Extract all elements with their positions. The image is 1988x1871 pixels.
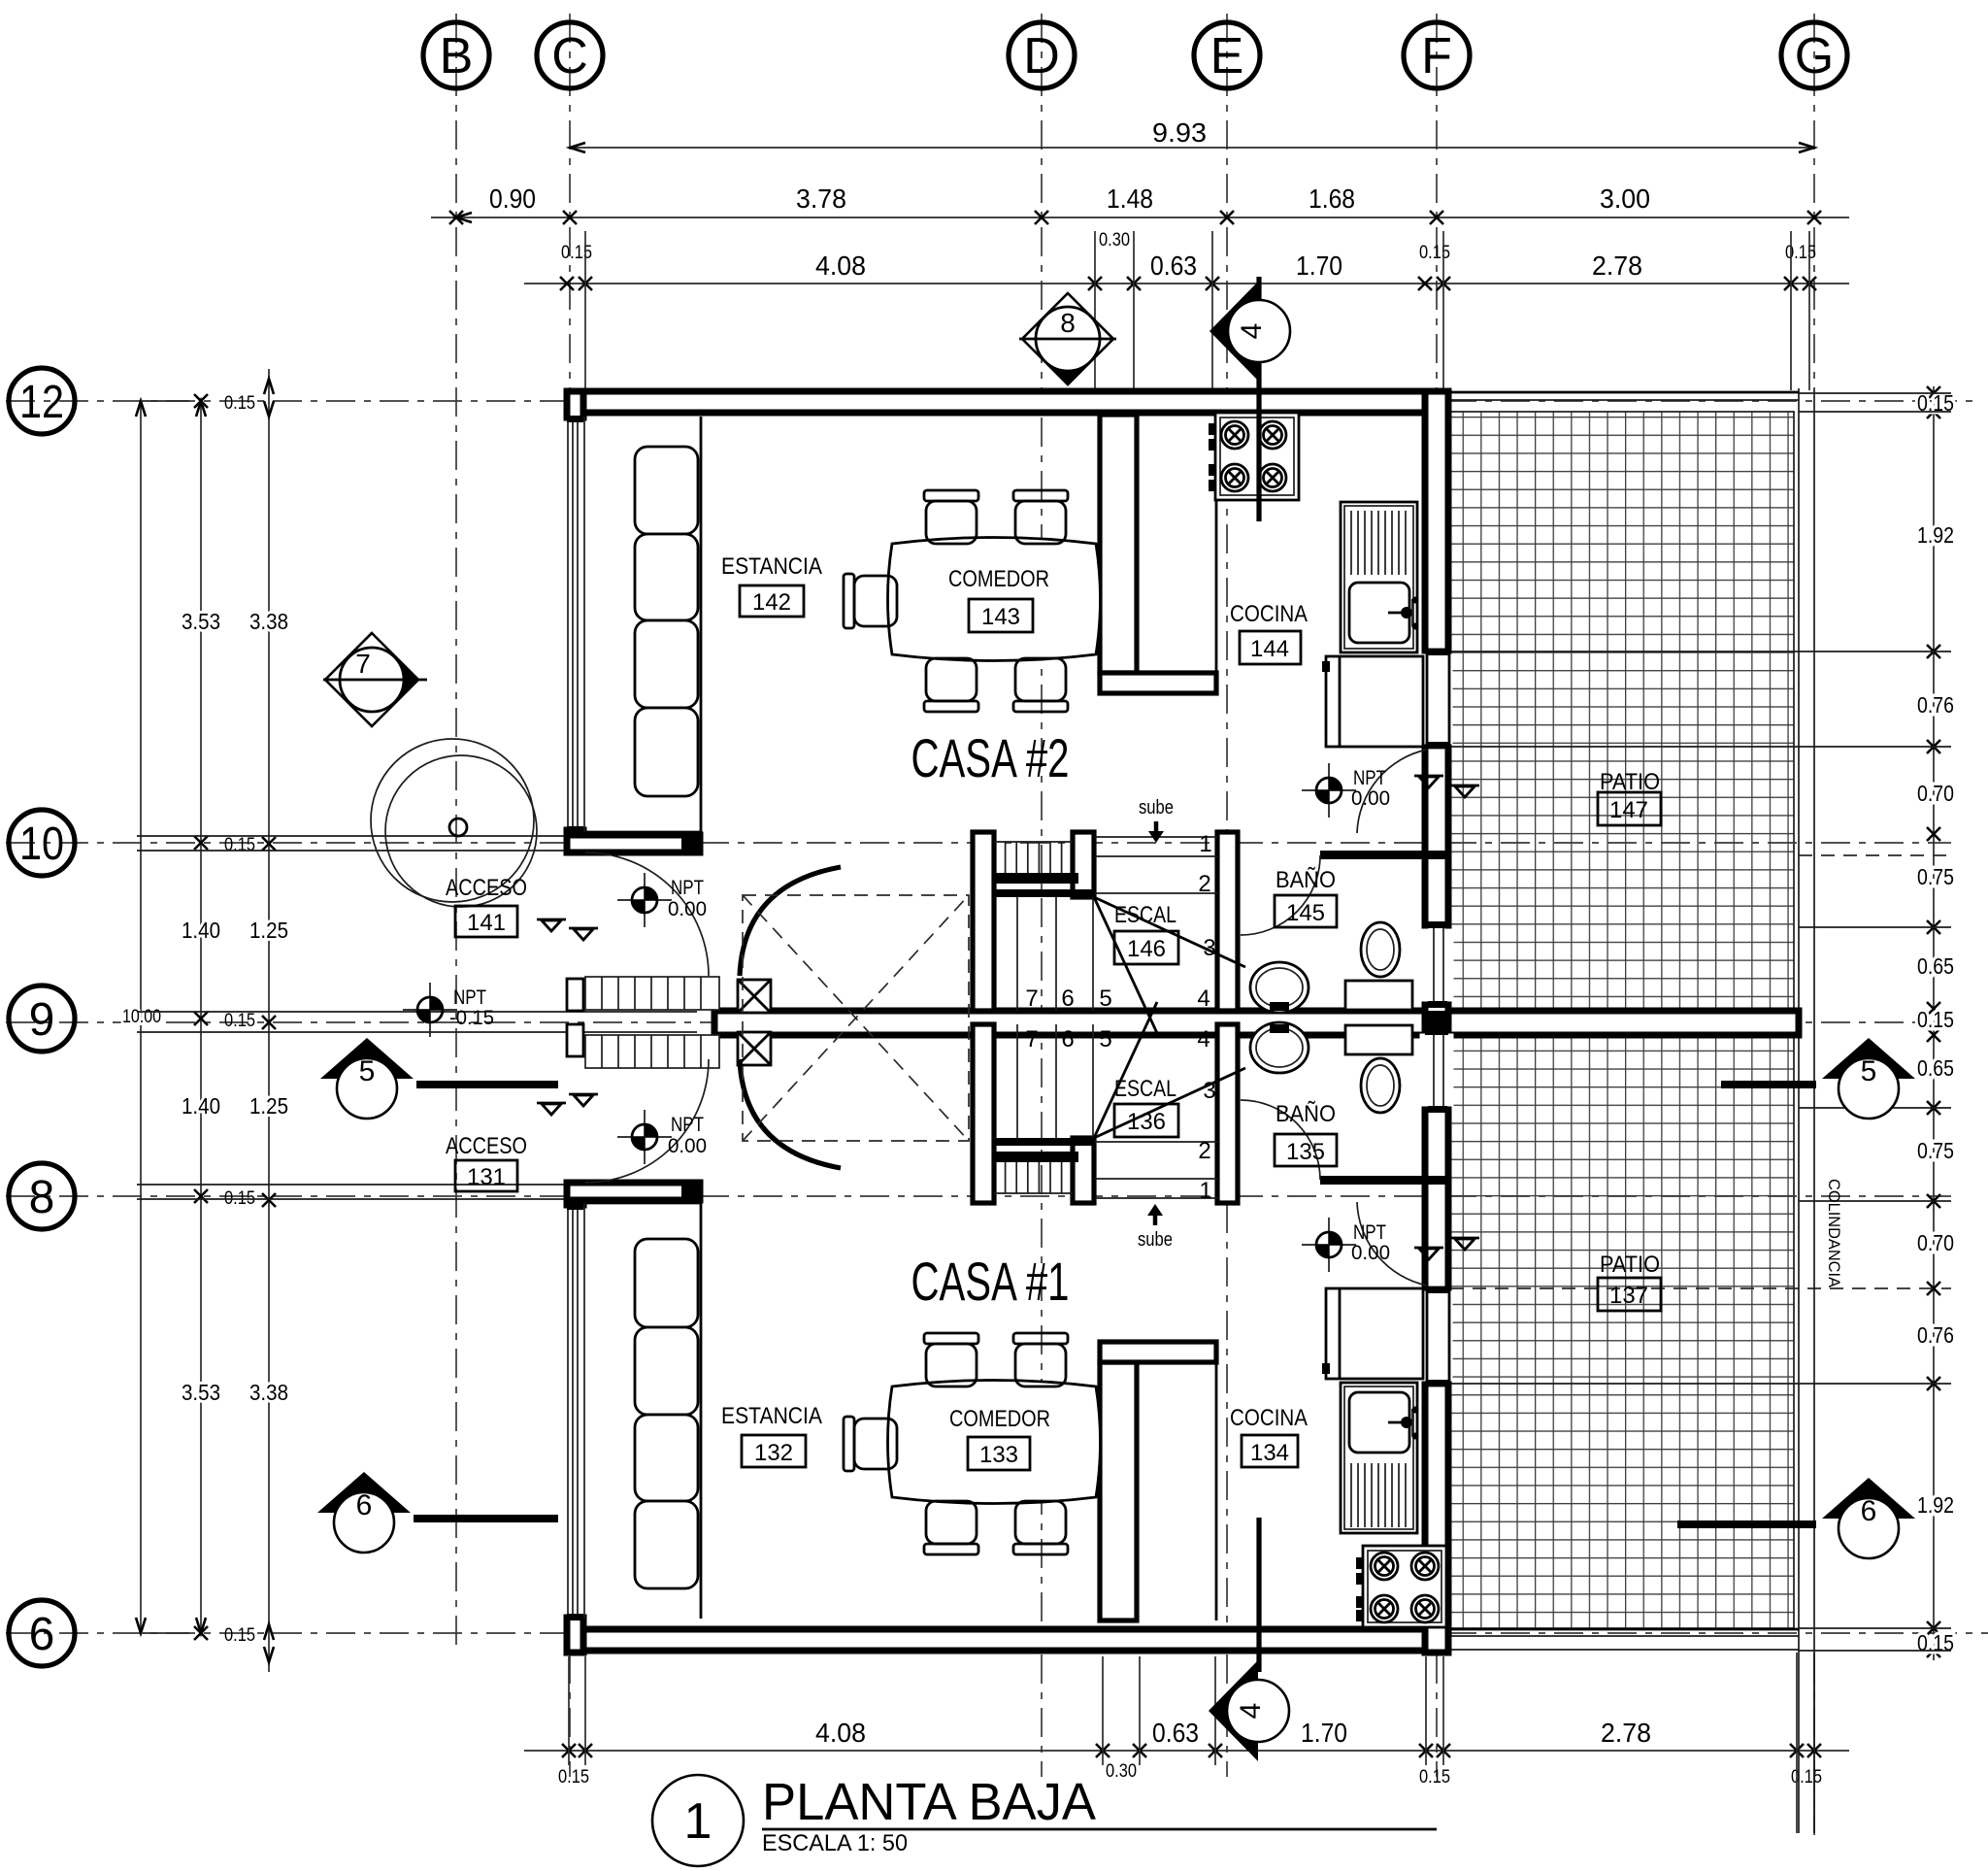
svg-text:4.08: 4.08 <box>815 251 866 281</box>
svg-text:1: 1 <box>684 1793 712 1850</box>
svg-text:ESTANCIA: ESTANCIA <box>721 1403 822 1429</box>
entry door swing casa2 <box>585 852 709 976</box>
label COMEDOR 143 casa2 <box>948 566 1049 632</box>
stair tread numbers casa2 <box>1025 831 1215 1012</box>
section marker 7 (diamond) <box>323 633 427 726</box>
grid axis line F (vertical dashed) <box>1436 14 1438 1777</box>
svg-text:1.25: 1.25 <box>249 918 288 943</box>
stair pocket landing band casa1 <box>994 1138 1094 1162</box>
label ESTANCIA 142 casa2 <box>721 553 822 617</box>
grid axis line 8 (horizontal dashed) <box>6 1195 1951 1197</box>
section marker 6 right (triangle circle) <box>1677 1478 1915 1558</box>
svg-text:0.65: 0.65 <box>1917 953 1954 979</box>
svg-text:4: 4 <box>1197 986 1209 1012</box>
grid bubble 12 (row axis) <box>9 368 75 434</box>
svg-text:D: D <box>1023 28 1060 84</box>
svg-text:1.25: 1.25 <box>249 1093 288 1119</box>
svg-text:C: C <box>551 28 588 84</box>
right dim extension lines across patio <box>1450 393 1951 1651</box>
svg-text:B: B <box>440 28 474 84</box>
svg-text:0.15: 0.15 <box>1785 243 1816 263</box>
level nablas casa2 patio door <box>1414 776 1479 797</box>
svg-text:1.92: 1.92 <box>1917 522 1954 548</box>
colindancia boundary double line at G <box>1799 388 1814 1833</box>
grid axis line G (vertical dashed) <box>1813 14 1815 1835</box>
svg-text:0.15: 0.15 <box>224 835 255 855</box>
dining table casa1 <box>888 1381 1101 1504</box>
bath door swing casa1 <box>1241 1100 1320 1180</box>
window in left wall casa2 (estancia) <box>563 416 586 833</box>
bottom dim chain 4.08/0.30/0.63/1.70/2.78 + 0.15s <box>524 1718 1849 1787</box>
label ACCESO 141 casa2 <box>446 875 527 937</box>
svg-text:ESCAL: ESCAL <box>1114 1076 1176 1102</box>
level nablas casa1 entry <box>537 1094 598 1115</box>
grid axis line 10 (horizontal dashed) <box>6 842 1951 844</box>
kitchen divider wall casa2 <box>1100 415 1137 673</box>
dining chair casa2 top-right <box>1013 490 1068 544</box>
exterior wall top (C-F, row 12) <box>567 391 1448 413</box>
svg-text:5: 5 <box>1099 1026 1111 1052</box>
svg-text:5: 5 <box>1099 986 1111 1012</box>
stove casa2 <box>1209 413 1299 500</box>
entry door swing casa1 <box>585 1059 709 1183</box>
sube arrow casa2 <box>1139 797 1174 843</box>
stair lower flight treads casa1 <box>1017 1024 1217 1198</box>
svg-text:9: 9 <box>29 994 55 1046</box>
svg-text:0.15: 0.15 <box>1419 243 1450 263</box>
stair cut diagonals casa2 <box>1094 897 1245 1033</box>
kitchen counter front line casa1 <box>1215 1362 1218 1620</box>
grid bubble C (column axis) <box>537 22 603 88</box>
svg-text:6: 6 <box>356 1489 373 1521</box>
svg-text:1.40: 1.40 <box>182 918 220 943</box>
grid bubble 10 (row axis) <box>9 810 75 876</box>
dining chair casa2 top-left <box>924 490 978 544</box>
section marker 5 right (triangle circle) <box>1721 1038 1915 1119</box>
svg-text:2.78: 2.78 <box>1601 1718 1651 1748</box>
label COMEDOR 133 casa1 <box>949 1406 1050 1470</box>
left 0.15 wall labels <box>224 393 255 1646</box>
dim chain total 9.93 (C to G) <box>570 117 1814 152</box>
svg-text:5: 5 <box>1861 1055 1877 1087</box>
patio door leaf casa1 <box>1427 1287 1449 1386</box>
party/spine wall row 9 <box>714 1011 1799 1035</box>
svg-text:1.48: 1.48 <box>1107 184 1153 214</box>
dining chair casa1 left end <box>844 1417 897 1471</box>
svg-text:136: 136 <box>1127 1109 1166 1135</box>
svg-text:PATIO: PATIO <box>1600 1252 1660 1278</box>
patio top boundary wall <box>1448 392 1799 400</box>
svg-text:COCINA: COCINA <box>1230 601 1308 627</box>
svg-text:0.63: 0.63 <box>1150 251 1197 281</box>
label CASA #1 <box>911 1251 1070 1312</box>
label CASA #2 <box>911 727 1070 788</box>
stair tread numbers casa1 <box>1025 1026 1215 1204</box>
svg-text:4.08: 4.08 <box>815 1718 866 1748</box>
kitchen sink casa2 <box>1341 502 1419 652</box>
stair pocket landing band casa2 <box>994 873 1094 897</box>
window in left wall casa1 (estancia) <box>563 1203 586 1620</box>
kitchen divider foot band casa2 <box>1100 673 1216 693</box>
label ESCAL 146 casa2 <box>1114 902 1178 964</box>
grid axis line E (vertical dashed) <box>1226 14 1228 1777</box>
top dim extension lines <box>585 231 1809 390</box>
label PATIO 147 casa2 <box>1598 769 1661 825</box>
svg-text:0.76: 0.76 <box>1917 692 1954 718</box>
svg-text:144: 144 <box>1250 636 1289 662</box>
dining chair casa1 bottom-left <box>924 1501 978 1554</box>
stair pocket left wall casa2 <box>973 832 994 1011</box>
bath door swing casa2 <box>1241 855 1320 935</box>
svg-text:1.40: 1.40 <box>182 1093 220 1119</box>
washbasin casa2 <box>1250 962 1309 1013</box>
svg-text:3.38: 3.38 <box>249 609 288 634</box>
exterior wall bottom (row 6) <box>567 1629 1448 1651</box>
bath/stair divider wall at E casa1 <box>1217 1024 1238 1203</box>
window in right bathroom wall casa2 <box>1428 921 1447 1008</box>
wall row10 stub (left of entry door casa2) <box>567 835 700 852</box>
level nablas casa2 entry <box>537 919 598 940</box>
svg-text:ESCAL: ESCAL <box>1114 902 1176 928</box>
grid bubble 9 (row axis) <box>9 986 75 1052</box>
svg-text:1.92: 1.92 <box>1917 1492 1954 1518</box>
tree symbol at entrance <box>371 739 537 907</box>
left wall stub at entry casa1 <box>567 1024 583 1056</box>
NPT 0.00 marker casa1 kitchen <box>1302 1218 1390 1272</box>
grid bubble D (column axis) <box>1009 22 1075 88</box>
svg-text:7: 7 <box>1025 986 1038 1012</box>
svg-text:9.93: 9.93 <box>1152 117 1207 148</box>
svg-text:134: 134 <box>1250 1440 1289 1466</box>
patio paving hatch casa1 (room 137) <box>1450 1035 1794 1628</box>
NPT 0.00 marker casa2 entry <box>617 873 707 927</box>
dining chair casa2 bottom-left <box>924 658 978 712</box>
exterior wall left lower (casa1) <box>567 1183 583 1653</box>
NPT 0.00 marker casa1 entry <box>617 1110 707 1164</box>
svg-text:143: 143 <box>981 604 1020 630</box>
svg-text:0.15: 0.15 <box>224 393 255 414</box>
svg-text:0.00: 0.00 <box>668 1135 707 1157</box>
left overall dim 10.00 (rows 12-6) <box>122 401 189 1633</box>
svg-text:1.68: 1.68 <box>1309 184 1355 214</box>
svg-text:2.78: 2.78 <box>1592 251 1642 281</box>
svg-text:0.15: 0.15 <box>1917 1007 1954 1032</box>
svg-text:0.65: 0.65 <box>1917 1055 1954 1081</box>
front path edge lines (left of building) <box>137 836 697 1199</box>
label PATIO 137 casa1 <box>1598 1252 1661 1311</box>
dining chair casa1 bottom-right <box>1013 1501 1068 1554</box>
dining chair casa1 top-left <box>924 1333 978 1387</box>
svg-text:NPT: NPT <box>453 986 486 1009</box>
grid bubble 8 (row axis) <box>9 1163 75 1229</box>
svg-text:NPT: NPT <box>1353 1221 1386 1244</box>
patio bottom boundary wall <box>1448 1629 1799 1650</box>
grid axis line B (vertical dashed) <box>455 14 457 1645</box>
svg-text:3.78: 3.78 <box>796 184 846 214</box>
svg-text:1: 1 <box>1199 831 1211 857</box>
svg-text:E: E <box>1210 28 1244 84</box>
svg-text:8: 8 <box>29 1172 55 1223</box>
svg-text:131: 131 <box>467 1164 506 1190</box>
svg-text:0.90: 0.90 <box>489 184 536 214</box>
grid bubble G (column axis) <box>1781 22 1847 88</box>
toilet casa2 <box>1345 922 1412 1010</box>
svg-text:sube: sube <box>1138 1229 1173 1251</box>
svg-text:0.30: 0.30 <box>1099 230 1130 251</box>
stair pocket right jamb casa2 <box>1073 832 1094 897</box>
svg-text:BAÑO: BAÑO <box>1276 867 1336 893</box>
stair first flight hatch casa2 <box>994 842 1073 873</box>
grid axis line 6 (horizontal dashed) <box>6 1632 1988 1634</box>
svg-text:132: 132 <box>754 1440 793 1466</box>
svg-text:0.30: 0.30 <box>1106 1761 1137 1782</box>
title PLANTA BAJA <box>762 1773 1437 1856</box>
svg-text:141: 141 <box>467 910 506 936</box>
section marker 4 top (circle flag) <box>1209 277 1290 382</box>
title drawing number circle <box>652 1775 744 1866</box>
left dim chain 3.53/1.40/1.40/3.53 <box>182 394 220 1640</box>
colindancia label (vertical text) <box>1825 1179 1843 1288</box>
sofa casa1 outline <box>583 1203 701 1619</box>
newel post casa2 <box>738 980 771 1013</box>
svg-text:0.75: 0.75 <box>1917 1138 1954 1163</box>
svg-text:ACCESO: ACCESO <box>446 875 527 901</box>
svg-text:NPT: NPT <box>671 877 704 899</box>
svg-text:3.53: 3.53 <box>182 609 220 634</box>
wall row8 stub (left of entry door casa1) <box>567 1183 700 1200</box>
dining table casa2 <box>888 538 1101 661</box>
dining chair casa1 top-right <box>1013 1333 1068 1387</box>
right dim chain 0.15/1.92/0.76/0.70/0.75/0.65/... <box>1917 386 1954 1660</box>
grid bubble F (column axis) <box>1404 22 1470 88</box>
svg-text:2: 2 <box>1198 1138 1210 1164</box>
svg-text:0.15: 0.15 <box>558 1767 589 1787</box>
svg-text:135: 135 <box>1286 1139 1325 1165</box>
sofa casa2 cushions <box>635 447 698 796</box>
svg-text:CASA #2: CASA #2 <box>911 727 1070 788</box>
svg-text:3.53: 3.53 <box>182 1380 220 1405</box>
svg-text:-0.15: -0.15 <box>449 1007 494 1029</box>
section marker 6 left (triangle circle) <box>317 1472 558 1553</box>
svg-text:6: 6 <box>1861 1495 1877 1527</box>
svg-text:4: 4 <box>1236 323 1268 340</box>
NPT 0.00 marker casa2 kitchen <box>1302 763 1390 818</box>
svg-text:3.38: 3.38 <box>249 1380 288 1405</box>
svg-text:0.75: 0.75 <box>1917 864 1954 889</box>
svg-text:1.70: 1.70 <box>1301 1718 1347 1748</box>
svg-text:PLANTA BAJA: PLANTA BAJA <box>762 1773 1096 1831</box>
sube arrow casa1 <box>1138 1204 1173 1251</box>
label COCINA 144 casa2 <box>1230 601 1308 664</box>
svg-text:0.70: 0.70 <box>1917 781 1954 806</box>
curved stair wall casa1 <box>740 1059 841 1168</box>
entry steps casa2 <box>585 977 719 1010</box>
svg-text:137: 137 <box>1609 1283 1648 1309</box>
window in right bathroom wall casa1 <box>1428 1028 1447 1113</box>
svg-text:5: 5 <box>359 1055 376 1087</box>
NPT -0.15 marker outside entry <box>403 983 494 1037</box>
svg-text:10.00: 10.00 <box>122 1007 161 1027</box>
sofa casa2 outline <box>583 417 701 832</box>
grid axis line 9 (horizontal dashed) <box>6 1021 1951 1023</box>
stove casa1 <box>1356 1546 1446 1627</box>
kitchen divider wall casa1 <box>1100 1362 1137 1620</box>
refrigerator casa1 <box>1322 1288 1423 1379</box>
svg-text:7: 7 <box>1025 1026 1038 1052</box>
kitchen sink casa1 <box>1341 1383 1419 1533</box>
section marker 4 bottom (circle flag) <box>1209 1660 1289 1761</box>
svg-text:0.00: 0.00 <box>668 898 707 920</box>
svg-text:0.15: 0.15 <box>224 1011 255 1031</box>
label BAÑO 145 casa2 <box>1275 867 1337 927</box>
svg-text:6: 6 <box>29 1609 55 1660</box>
svg-text:ACCESO: ACCESO <box>446 1133 527 1159</box>
dim chain interior 0.15/4.08/0.30/0.63/1.70/0.15/2.78/0.15 <box>524 230 1849 290</box>
svg-text:NPT: NPT <box>1353 767 1386 789</box>
patio paving hatch casa2 (room 147) <box>1450 412 1794 1009</box>
exterior wall right (F line) <box>1425 391 1448 1653</box>
svg-text:0.15: 0.15 <box>561 243 592 263</box>
toilet casa1 <box>1345 1025 1412 1113</box>
grid bubble E (column axis) <box>1194 22 1260 88</box>
svg-text:147: 147 <box>1609 797 1648 823</box>
bottom dim extension lines <box>569 1653 1814 1833</box>
svg-text:F: F <box>1421 28 1452 84</box>
stair cut diagonals casa1 <box>1094 1002 1245 1138</box>
svg-text:12: 12 <box>19 377 64 428</box>
label COCINA 134 casa1 <box>1230 1405 1308 1467</box>
section marker 5 left (triangle circle) <box>320 1038 558 1119</box>
label ESCAL 136 casa1 <box>1114 1076 1178 1137</box>
stair first flight hatch casa1 <box>994 1162 1073 1193</box>
grid axis line C (vertical dashed) <box>569 14 571 1777</box>
grid bubble 6 (row axis) <box>9 1600 75 1666</box>
svg-text:4: 4 <box>1235 1703 1267 1720</box>
left wall stub at entry casa2 <box>567 979 583 1011</box>
svg-text:133: 133 <box>979 1442 1018 1468</box>
svg-text:0.70: 0.70 <box>1917 1230 1954 1255</box>
patio door swing arc casa2 <box>1357 750 1427 833</box>
svg-text:6: 6 <box>1061 1026 1074 1052</box>
upper floor projection dashed outline <box>743 895 969 1141</box>
svg-text:1.70: 1.70 <box>1296 251 1342 281</box>
grid bubble B (column axis) <box>423 22 489 88</box>
svg-text:BAÑO: BAÑO <box>1276 1101 1336 1127</box>
svg-text:0.15: 0.15 <box>224 1625 255 1646</box>
wall junction F x spine <box>1425 1011 1448 1035</box>
stair lower flight treads casa2 <box>1017 837 1217 1011</box>
patio door leaf casa2 <box>1427 650 1449 748</box>
label BAÑO 135 casa1 <box>1275 1101 1337 1166</box>
kitchen divider head band casa1 <box>1100 1342 1216 1362</box>
svg-text:0.00: 0.00 <box>1351 787 1390 810</box>
bathroom bottom wall casa1 <box>1320 1176 1448 1185</box>
grid axis line 12 (horizontal dashed) <box>6 400 1980 402</box>
bath/stair divider wall at E casa2 <box>1217 832 1238 1011</box>
svg-text:6: 6 <box>1061 986 1074 1012</box>
svg-text:0.76: 0.76 <box>1917 1322 1954 1348</box>
level nablas casa1 patio door <box>1414 1238 1479 1259</box>
svg-text:ESCALA 1: 50: ESCALA 1: 50 <box>762 1830 908 1856</box>
svg-text:COLINDANCIA: COLINDANCIA <box>1825 1179 1843 1288</box>
svg-text:0.00: 0.00 <box>1351 1242 1390 1264</box>
refrigerator casa2 <box>1322 656 1423 747</box>
svg-text:145: 145 <box>1286 900 1325 926</box>
patio door swing arc casa1 <box>1357 1202 1427 1286</box>
svg-text:3.00: 3.00 <box>1600 184 1650 214</box>
svg-text:146: 146 <box>1127 936 1166 962</box>
section-4 cut line through casa2 kitchen <box>1256 363 1261 521</box>
right wall opening knockouts <box>1420 654 1453 1381</box>
exterior wall left upper (casa2) <box>567 391 583 852</box>
curved stair wall casa2 <box>740 867 841 976</box>
svg-text:2: 2 <box>1198 871 1210 897</box>
svg-text:CASA #1: CASA #1 <box>911 1251 1070 1312</box>
stair pocket left wall casa1 <box>973 1024 994 1203</box>
left dim chain 3.38/1.25/1.25/3.38 <box>249 369 288 1672</box>
section marker 8 (diamond) <box>1019 293 1116 384</box>
svg-text:10: 10 <box>19 819 64 870</box>
dining chair casa2 bottom-right <box>1013 658 1068 712</box>
svg-text:0.15: 0.15 <box>1791 1767 1822 1787</box>
svg-text:4: 4 <box>1197 1026 1209 1052</box>
svg-text:8: 8 <box>1060 308 1076 338</box>
svg-text:1: 1 <box>1199 1178 1211 1204</box>
svg-text:COMEDOR: COMEDOR <box>949 1406 1050 1432</box>
svg-text:0.15: 0.15 <box>1917 1630 1954 1655</box>
svg-text:sube: sube <box>1139 797 1174 819</box>
stair pocket right jamb casa1 <box>1073 1138 1094 1203</box>
entry steps casa1 <box>585 1035 719 1068</box>
washbasin casa1 <box>1250 1022 1309 1073</box>
svg-text:7: 7 <box>355 649 371 679</box>
svg-text:NPT: NPT <box>671 1114 704 1136</box>
svg-text:ESTANCIA: ESTANCIA <box>721 553 822 580</box>
grid axis line D (vertical dashed) <box>1041 14 1043 1777</box>
label ACCESO 131 casa1 <box>446 1133 527 1191</box>
svg-text:142: 142 <box>752 589 791 616</box>
section-4 cut line through casa1 kitchen <box>1256 1518 1261 1672</box>
bathroom top wall casa2 <box>1320 851 1448 859</box>
dim chain axis spacings 0.90/3.78/1.48/1.68/3.00 <box>431 184 1849 224</box>
newel post casa1 <box>738 1032 771 1065</box>
svg-text:COMEDOR: COMEDOR <box>948 566 1049 592</box>
svg-text:0.63: 0.63 <box>1152 1718 1199 1748</box>
svg-text:0.15: 0.15 <box>1419 1767 1450 1787</box>
dining chair casa2 left end <box>844 574 897 628</box>
svg-text:COCINA: COCINA <box>1230 1405 1308 1431</box>
kitchen counter front line casa2 <box>1215 415 1218 673</box>
svg-text:G: G <box>1795 28 1834 84</box>
sofa casa1 cushions <box>635 1239 698 1588</box>
label ESTANCIA 132 casa1 <box>721 1403 822 1467</box>
